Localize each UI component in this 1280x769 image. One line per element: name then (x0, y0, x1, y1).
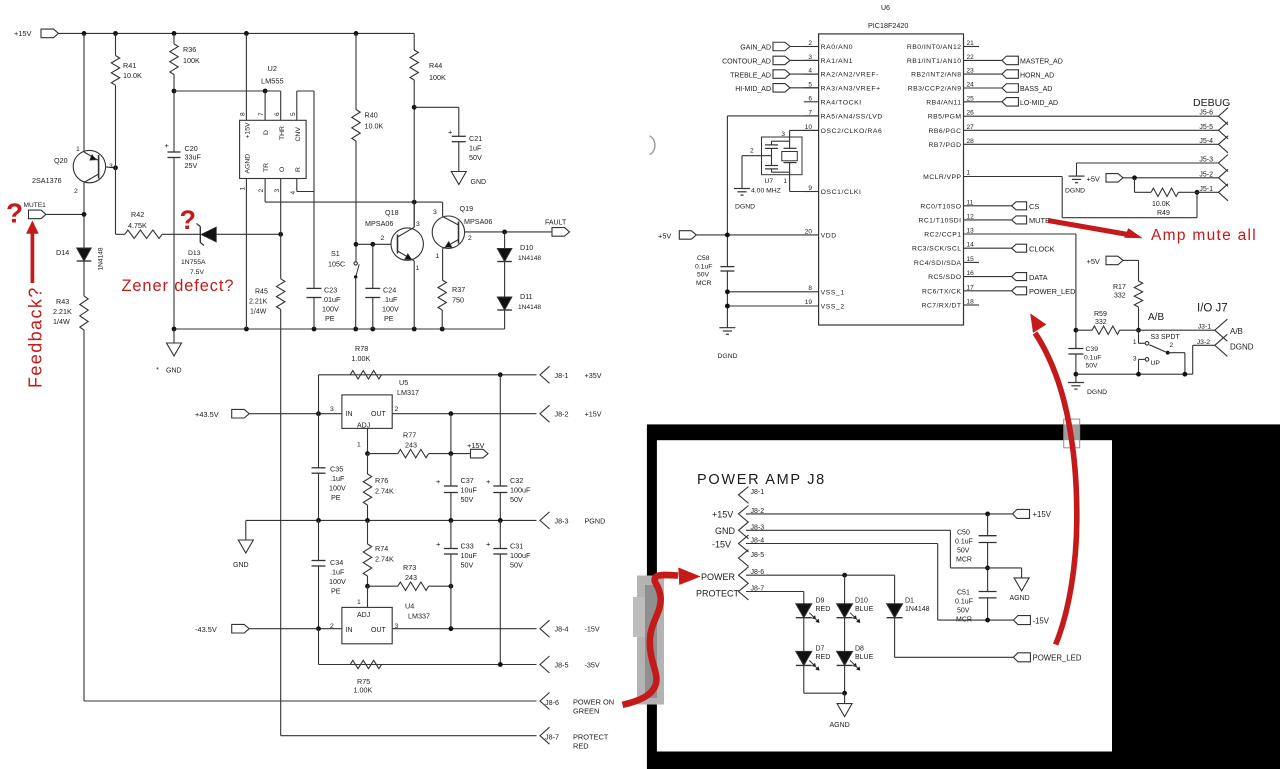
svg-text:ADJ: ADJ (357, 612, 370, 619)
svg-text:D13: D13 (188, 250, 201, 257)
svg-text:332: 332 (1114, 293, 1126, 300)
svg-text:50V: 50V (461, 561, 474, 570)
svg-text:RA0/AN0: RA0/AN0 (821, 44, 854, 51)
svg-text:50V: 50V (957, 608, 970, 615)
svg-text:RED: RED (573, 742, 589, 751)
svg-text:R17: R17 (1113, 284, 1126, 291)
svg-text:AGND: AGND (830, 722, 850, 729)
svg-text:100V: 100V (382, 305, 399, 314)
svg-text:-35V: -35V (585, 661, 600, 670)
svg-text:BLUE: BLUE (855, 654, 874, 661)
svg-text:?: ? (6, 198, 23, 229)
svg-text:243: 243 (405, 441, 417, 450)
svg-text:D14: D14 (56, 248, 69, 257)
svg-text:C50: C50 (957, 530, 970, 537)
svg-text:+43.5V: +43.5V (195, 410, 219, 419)
svg-text:R49: R49 (1157, 210, 1170, 217)
svg-text:100uF: 100uF (510, 486, 531, 495)
svg-text:50V: 50V (461, 495, 474, 504)
svg-text:3: 3 (416, 221, 420, 228)
svg-text:10.0K: 10.0K (123, 71, 142, 80)
svg-text:RB2/INT2/AN8: RB2/INT2/AN8 (911, 72, 961, 79)
svg-text:2SA1376: 2SA1376 (32, 176, 62, 185)
svg-text:10uF: 10uF (461, 551, 478, 560)
svg-text:RC1/T10SDI: RC1/T10SDI (918, 217, 961, 224)
svg-text:1: 1 (1133, 339, 1137, 346)
svg-text:2: 2 (258, 189, 265, 193)
svg-text:BLUE: BLUE (855, 606, 874, 613)
svg-text:RB1/INT1/AN10: RB1/INT1/AN10 (907, 58, 962, 65)
svg-text:RC5/SDO: RC5/SDO (928, 274, 961, 281)
svg-text:R36: R36 (183, 45, 196, 54)
svg-text:POWER_LED: POWER_LED (1029, 287, 1075, 296)
svg-text:1/4W: 1/4W (53, 317, 70, 326)
svg-text:R44: R44 (429, 61, 442, 70)
svg-text:3: 3 (274, 189, 281, 193)
svg-text:Zener defect?: Zener defect? (122, 277, 235, 295)
svg-text:LM337: LM337 (408, 612, 430, 621)
svg-text:3: 3 (433, 209, 437, 216)
svg-text:POWER: POWER (701, 572, 736, 582)
svg-text:R43: R43 (56, 297, 69, 306)
svg-text:MPSA06: MPSA06 (365, 219, 393, 228)
svg-text:OUT: OUT (371, 411, 387, 418)
svg-text:8: 8 (240, 112, 247, 116)
svg-text:1: 1 (357, 442, 361, 449)
svg-text:C58: C58 (697, 255, 710, 262)
svg-text:C24: C24 (383, 286, 396, 295)
svg-text:VDD: VDD (821, 232, 837, 239)
svg-text:1.00K: 1.00K (352, 354, 371, 363)
svg-text:J8-3: J8-3 (555, 516, 569, 525)
svg-text:CNV: CNV (295, 127, 302, 142)
svg-text:.1uF: .1uF (330, 568, 345, 577)
svg-text:RED: RED (816, 606, 831, 613)
svg-text:0.1uF: 0.1uF (1084, 354, 1101, 361)
svg-text:4.00 MHZ: 4.00 MHZ (751, 188, 781, 195)
svg-text:RC6/TX/CK: RC6/TX/CK (922, 288, 962, 295)
svg-text:R37: R37 (452, 285, 465, 294)
svg-text:+5V: +5V (658, 232, 671, 241)
svg-text:D7: D7 (816, 646, 825, 653)
svg-text:CS: CS (1029, 202, 1039, 211)
svg-text:PROTECT: PROTECT (696, 589, 740, 599)
svg-text:DGND: DGND (735, 204, 755, 211)
svg-text:CLOCK: CLOCK (1029, 244, 1055, 253)
svg-text:1: 1 (783, 178, 787, 185)
svg-text:J8-1: J8-1 (555, 371, 569, 380)
svg-text:19: 19 (805, 299, 813, 306)
svg-text:+: + (486, 540, 491, 549)
svg-text:R77: R77 (403, 431, 416, 440)
svg-text:MUTE: MUTE (1029, 216, 1050, 225)
svg-text:POWER ON: POWER ON (573, 698, 614, 707)
svg-text:105C: 105C (328, 260, 345, 269)
svg-text:-15V: -15V (712, 540, 731, 550)
svg-text:J8-7: J8-7 (545, 733, 559, 742)
svg-text:100K: 100K (429, 73, 446, 82)
svg-text:J3-1: J3-1 (1198, 324, 1211, 331)
svg-text:RA5/AN4/SS/LVD: RA5/AN4/SS/LVD (821, 113, 883, 120)
svg-text:ADJ: ADJ (357, 423, 370, 430)
svg-text:1: 1 (240, 187, 247, 191)
svg-text:2: 2 (1170, 342, 1174, 349)
svg-text:100V: 100V (329, 577, 346, 586)
svg-text:2: 2 (750, 148, 754, 155)
svg-text:1N755A: 1N755A (181, 259, 206, 266)
svg-text:1/4W: 1/4W (250, 309, 267, 316)
svg-text:0.1uF: 0.1uF (695, 263, 712, 270)
svg-text:C37: C37 (461, 476, 474, 485)
svg-text:100uF: 100uF (510, 551, 531, 560)
svg-text:C39: C39 (1086, 346, 1099, 353)
svg-text:1N4148: 1N4148 (905, 606, 930, 613)
svg-text:3: 3 (781, 131, 785, 138)
svg-text:GND: GND (166, 368, 182, 375)
svg-text:1: 1 (357, 599, 361, 606)
svg-text:1: 1 (436, 253, 440, 260)
svg-text:243: 243 (405, 573, 417, 582)
svg-text:+: + (436, 540, 441, 549)
svg-text:50V: 50V (1086, 363, 1099, 370)
svg-text:PIC18F2420: PIC18F2420 (868, 21, 908, 30)
svg-text:D10: D10 (855, 598, 868, 605)
svg-text:2: 2 (74, 188, 78, 195)
svg-text:50V: 50V (957, 548, 970, 555)
svg-text:3: 3 (1133, 356, 1137, 363)
svg-text:RC4/SDI/SDA: RC4/SDI/SDA (914, 260, 962, 267)
svg-text:RA2/AN2/VREF-: RA2/AN2/VREF- (821, 72, 879, 79)
svg-text:7: 7 (258, 112, 265, 116)
svg-text:+15V: +15V (585, 410, 602, 419)
svg-text:RA3/AN3/VREF+: RA3/AN3/VREF+ (821, 85, 881, 92)
svg-text:MPSA06: MPSA06 (464, 217, 492, 226)
svg-text:J8-1: J8-1 (751, 489, 765, 496)
svg-text:A/B: A/B (1230, 327, 1243, 336)
svg-text:LO-MID_AD: LO-MID_AD (1020, 100, 1058, 107)
svg-text:J8-6: J8-6 (545, 698, 559, 707)
svg-text:DATA: DATA (1029, 273, 1048, 282)
svg-text:U4: U4 (405, 602, 414, 611)
svg-text:DEBUG: DEBUG (1193, 97, 1230, 109)
svg-text:MCR: MCR (696, 280, 712, 287)
svg-text:R74: R74 (375, 544, 388, 553)
svg-text:750: 750 (452, 296, 464, 305)
svg-text:POWER_LED: POWER_LED (1033, 654, 1082, 663)
svg-text:2.21K: 2.21K (53, 307, 72, 316)
svg-text:CONTOUR_AD: CONTOUR_AD (722, 59, 771, 66)
svg-text:5: 5 (290, 112, 297, 116)
svg-text:R59: R59 (1094, 311, 1107, 318)
svg-text:R40: R40 (365, 111, 378, 120)
svg-text:GND: GND (715, 526, 736, 536)
svg-text:6: 6 (808, 95, 812, 102)
svg-text:+: + (486, 477, 491, 486)
svg-text:RB4/AN11: RB4/AN11 (926, 99, 961, 106)
svg-text:2.74K: 2.74K (375, 487, 394, 496)
svg-text:PE: PE (384, 314, 394, 323)
svg-text:Amp mute all: Amp mute all (1151, 227, 1257, 244)
svg-text:0.1uF: 0.1uF (955, 539, 973, 546)
svg-text:Q18: Q18 (385, 208, 399, 217)
svg-text:4: 4 (290, 191, 297, 195)
svg-text:U6: U6 (881, 5, 890, 12)
svg-text:J8-5: J8-5 (555, 661, 569, 670)
svg-text:GAIN_AD: GAIN_AD (740, 45, 771, 52)
svg-text:I/O J7: I/O J7 (1197, 303, 1228, 315)
svg-text:IN: IN (346, 411, 353, 418)
svg-text:J8-5: J8-5 (751, 552, 765, 559)
svg-text:R: R (295, 167, 302, 172)
svg-text:+: + (165, 141, 170, 150)
svg-text:C35: C35 (330, 465, 343, 474)
svg-text:A/B: A/B (1148, 312, 1164, 323)
svg-text:+15V: +15V (712, 510, 733, 520)
svg-text:C33: C33 (461, 542, 474, 551)
svg-text:+5V: +5V (1087, 175, 1100, 184)
svg-text:2.21K: 2.21K (249, 299, 268, 306)
svg-text:1N4148: 1N4148 (518, 304, 541, 311)
svg-text:C51: C51 (957, 590, 970, 597)
svg-text:RC2/CCP1: RC2/CCP1 (924, 232, 961, 239)
svg-text:C31: C31 (510, 542, 523, 551)
svg-text:MCLR/VPP: MCLR/VPP (923, 174, 961, 181)
svg-text:RB3/CCP2/AN9: RB3/CCP2/AN9 (908, 86, 962, 93)
svg-text:TR: TR (263, 163, 270, 172)
svg-text:+15V: +15V (245, 122, 252, 139)
svg-text:J8-4: J8-4 (555, 625, 569, 634)
svg-text:OSC1/CLKI: OSC1/CLKI (821, 189, 862, 196)
svg-text:10uF: 10uF (461, 486, 478, 495)
svg-text:C32: C32 (510, 476, 523, 485)
svg-text:25V: 25V (185, 161, 198, 170)
svg-text:50V: 50V (510, 495, 523, 504)
svg-text:1N4148: 1N4148 (518, 255, 541, 262)
svg-text:D10: D10 (520, 243, 533, 252)
svg-text:+: + (436, 477, 441, 486)
svg-text:50V: 50V (510, 561, 523, 570)
svg-text:2: 2 (395, 406, 399, 413)
svg-text:100K: 100K (183, 56, 200, 65)
svg-text:3: 3 (109, 163, 113, 170)
svg-text:AGND: AGND (245, 154, 252, 174)
svg-text:LM555: LM555 (261, 77, 284, 86)
svg-text:IN: IN (346, 627, 353, 634)
svg-text:RC0/T10SO: RC0/T10SO (920, 203, 961, 210)
svg-text:2.74K: 2.74K (375, 555, 394, 564)
svg-text:50V: 50V (469, 153, 482, 162)
svg-text:RB0/INT0/AN12: RB0/INT0/AN12 (907, 44, 962, 51)
svg-text:100V: 100V (322, 305, 339, 314)
svg-text:R73: R73 (403, 563, 416, 572)
svg-text:DGND: DGND (1065, 188, 1085, 195)
svg-text:1: 1 (76, 146, 80, 153)
svg-text:PE: PE (331, 493, 341, 502)
svg-text:U7: U7 (765, 178, 774, 185)
svg-text:DGND: DGND (1087, 389, 1107, 396)
svg-text:+15V: +15V (467, 441, 485, 450)
svg-text:PGND: PGND (585, 516, 606, 525)
svg-text:50V: 50V (697, 272, 710, 279)
svg-text:U5: U5 (399, 378, 408, 387)
svg-text:RB6/PGC: RB6/PGC (929, 128, 962, 135)
svg-text:POWER AMP J8: POWER AMP J8 (697, 472, 826, 488)
svg-text:S3 SPDT: S3 SPDT (1151, 334, 1181, 341)
svg-text:Q20: Q20 (54, 156, 68, 165)
svg-text:THR: THR (279, 126, 286, 140)
svg-text:Q19: Q19 (460, 204, 474, 213)
svg-text:RB5/PGM: RB5/PGM (928, 114, 962, 121)
svg-text:PE: PE (325, 314, 335, 323)
svg-text:10.0K: 10.0K (365, 122, 384, 131)
svg-text:C21: C21 (469, 134, 482, 143)
svg-text:HORN_AD: HORN_AD (1020, 72, 1054, 79)
svg-text:D1: D1 (905, 598, 914, 605)
svg-text:332: 332 (1095, 319, 1107, 326)
svg-text:-43.5V: -43.5V (195, 625, 217, 634)
svg-text:J8-2: J8-2 (555, 410, 569, 419)
svg-text:LM317: LM317 (397, 388, 419, 397)
svg-text:PROTECT: PROTECT (573, 733, 609, 742)
svg-text:VSS_2: VSS_2 (821, 304, 845, 311)
svg-text:+15V: +15V (14, 29, 32, 38)
svg-text:1.00K: 1.00K (354, 686, 373, 695)
svg-text:4.75K: 4.75K (128, 221, 147, 230)
svg-text:2: 2 (468, 235, 472, 242)
svg-text:UP: UP (1151, 360, 1161, 367)
svg-text:C23: C23 (324, 286, 337, 295)
svg-text:RA1/AN1: RA1/AN1 (821, 58, 854, 65)
svg-text:7.5V: 7.5V (190, 269, 204, 276)
svg-text:RC7/RX/DT: RC7/RX/DT (922, 303, 962, 310)
svg-text:+: + (448, 128, 453, 137)
svg-text:-15V: -15V (585, 625, 600, 634)
svg-text:8: 8 (808, 285, 812, 292)
svg-text:.1uF: .1uF (383, 295, 398, 304)
svg-text:1: 1 (967, 170, 971, 177)
svg-text:RC3/SCK/SCL: RC3/SCK/SCL (912, 246, 962, 253)
svg-text:21: 21 (967, 40, 975, 47)
svg-text:U2: U2 (268, 64, 277, 73)
svg-text:OUT: OUT (371, 627, 387, 634)
svg-text:R42: R42 (131, 210, 144, 219)
svg-text:1N4148: 1N4148 (98, 247, 105, 270)
svg-text:10.0K: 10.0K (1152, 201, 1171, 208)
svg-text:BASS_AD: BASS_AD (1020, 86, 1052, 93)
svg-text:R78: R78 (355, 344, 368, 353)
svg-text:MUTE1: MUTE1 (24, 202, 47, 209)
svg-text:0.1uF: 0.1uF (955, 599, 973, 606)
svg-text:*: * (156, 365, 159, 374)
svg-text:MASTER_AD: MASTER_AD (1020, 59, 1063, 66)
svg-text:3: 3 (330, 406, 334, 413)
svg-text:DGND: DGND (1230, 343, 1254, 352)
svg-text:+15V: +15V (1033, 510, 1052, 519)
svg-text:O: O (279, 167, 286, 172)
svg-text:DGND: DGND (718, 353, 738, 360)
svg-text:R41: R41 (123, 61, 136, 70)
svg-text:6: 6 (274, 112, 281, 116)
svg-text:Feedback?: Feedback? (26, 286, 46, 388)
svg-text:RED: RED (816, 654, 831, 661)
svg-text:+35V: +35V (585, 371, 602, 380)
svg-text:1uF: 1uF (469, 144, 482, 153)
svg-text:TREBLE_AD: TREBLE_AD (730, 72, 771, 79)
svg-text:C34: C34 (330, 558, 343, 567)
svg-text:D8: D8 (855, 646, 864, 653)
svg-text:R45: R45 (255, 289, 268, 296)
svg-text:100V: 100V (329, 484, 346, 493)
svg-text:GND: GND (471, 179, 487, 186)
svg-text:HI-MID_AD: HI-MID_AD (735, 86, 771, 93)
svg-text:GREEN: GREEN (573, 707, 599, 716)
svg-text:-15V: -15V (1033, 617, 1050, 626)
svg-text:RA4/TOCKI: RA4/TOCKI (821, 99, 862, 106)
svg-text:FAULT: FAULT (545, 220, 567, 227)
svg-text:.1uF: .1uF (330, 474, 345, 483)
svg-text:S1: S1 (331, 249, 340, 258)
svg-text:AGND: AGND (1010, 595, 1030, 602)
svg-text:RB7/PGD: RB7/PGD (929, 142, 962, 149)
svg-text:R76: R76 (375, 476, 388, 485)
svg-text:.01uF: .01uF (322, 295, 341, 304)
svg-text:?: ? (180, 205, 197, 235)
svg-text:2: 2 (381, 235, 385, 242)
svg-text:+5V: +5V (1087, 257, 1100, 266)
svg-text:1: 1 (416, 265, 420, 272)
svg-text:D9: D9 (816, 598, 825, 605)
svg-text:D: D (263, 130, 270, 135)
svg-text:GND: GND (233, 562, 249, 569)
svg-text:MCR: MCR (956, 557, 972, 564)
svg-text:D11: D11 (520, 292, 533, 301)
svg-text:PE: PE (331, 587, 341, 596)
svg-text:OSC2/CLKO/RA6: OSC2/CLKO/RA6 (821, 128, 883, 135)
svg-text:VSS_1: VSS_1 (821, 289, 845, 296)
